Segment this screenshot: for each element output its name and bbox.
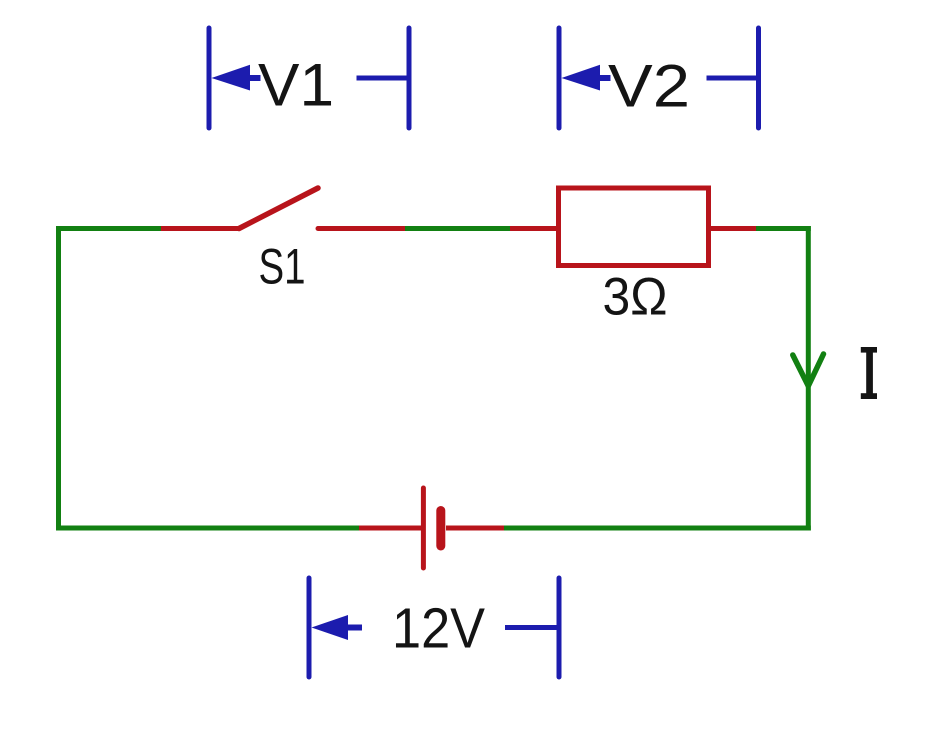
voltmeter marker 12V arrow — [312, 615, 349, 640]
wire left vertical (green) — [56, 226, 61, 531]
wire battery left lead (red) — [359, 526, 421, 531]
battery 12V short plate — [436, 511, 445, 547]
voltmeter marker V1 right bar — [407, 28, 412, 128]
wire top-right horizontal (green) — [756, 226, 811, 231]
wire mid top horizontal (green) — [405, 226, 510, 231]
wire switch right lead (red) — [318, 226, 405, 231]
wire resistor right lead (red) — [708, 226, 756, 231]
svg-text:V2: V2 — [608, 53, 690, 120]
wire top-left horizontal (green) — [56, 226, 161, 231]
voltmeter marker V1 arrow tail — [246, 75, 261, 81]
svg-text:12V: 12V — [392, 597, 485, 661]
voltmeter marker V2 right lead — [707, 76, 757, 81]
voltmeter marker V2 left bar — [557, 28, 562, 128]
voltmeter marker V2 arrow tail — [596, 75, 611, 81]
wire battery right lead (red) — [446, 526, 504, 531]
voltmeter marker 12V right bar — [557, 578, 562, 677]
wire resistor left lead (red) — [510, 226, 558, 231]
wire right vertical (green) — [806, 226, 811, 531]
switch S1 lever — [239, 188, 318, 229]
wire bottom-right horizontal (green) — [504, 526, 811, 531]
label I — [861, 347, 877, 399]
resistor 3Ω body — [559, 188, 709, 266]
svg-text:V1: V1 — [258, 52, 334, 119]
voltmeter marker V1 arrow — [212, 65, 251, 91]
voltmeter marker V1 right lead — [357, 76, 408, 81]
voltmeter marker V2 arrow — [562, 65, 601, 91]
battery 12V long plate — [421, 488, 426, 568]
svg-text:3Ω: 3Ω — [603, 268, 668, 327]
voltmeter marker 12V left bar — [307, 578, 312, 677]
voltmeter marker V2 right bar — [756, 28, 761, 128]
voltmeter marker 12V right lead — [505, 625, 557, 630]
svg-text:S1: S1 — [259, 238, 306, 295]
voltmeter marker V1 left bar — [207, 28, 212, 128]
voltmeter marker 12V arrow tail — [344, 625, 362, 631]
wire bottom-left horizontal (green) — [56, 526, 359, 531]
wire switch left lead (red) — [161, 226, 239, 231]
current arrow I (green chevron) — [793, 354, 824, 386]
